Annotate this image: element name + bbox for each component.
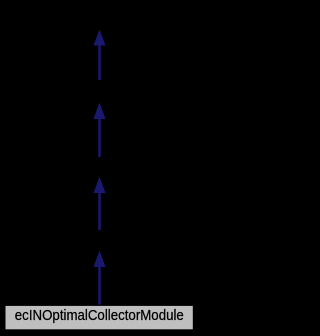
inheritance arrow 3 xyxy=(94,177,106,231)
class box ecINOptimalCollectorModule xyxy=(6,306,193,329)
inheritance arrow 2 xyxy=(94,103,106,158)
inheritance arrow 4 (bottom, rises from the class box) xyxy=(94,251,106,305)
inheritance arrow 1 (topmost, pointing up to hidden base-class box) xyxy=(94,30,106,81)
svg-text:ecINOptimalCollectorModule: ecINOptimalCollectorModule xyxy=(15,308,184,324)
box fill xyxy=(6,306,193,329)
